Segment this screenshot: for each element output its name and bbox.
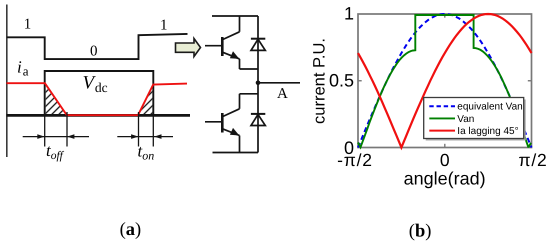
svg-text:Ia lagging 45°: Ia lagging 45°	[457, 126, 518, 137]
axis (vertical)	[6, 5, 8, 158]
svg-text:Van: Van	[457, 114, 474, 125]
svg-text:0: 0	[440, 150, 450, 170]
wire dc-link vertical	[257, 16, 259, 153]
hatch right (ton region)	[139, 86, 153, 114]
svg-text:0: 0	[90, 44, 98, 60]
diode D2 (lower freewheeling)	[251, 114, 265, 126]
svg-text:(b): (b)	[409, 222, 432, 242]
legend sample Van	[429, 117, 455, 119]
svg-text:0.5: 0.5	[329, 71, 354, 91]
svg-text:π/2: π/2	[518, 150, 547, 170]
dimension arrows toff	[23, 136, 89, 138]
curve Van (green)	[358, 15, 531, 148]
diode D1 (upper freewheeling)	[251, 39, 265, 51]
legend sample Ia lagging 45	[429, 130, 455, 132]
svg-text:angle(rad): angle(rad)	[404, 168, 486, 188]
curve equivalent Van (blue dashed)	[358, 14, 532, 148]
node A junction dot	[256, 81, 261, 86]
svg-text:1: 1	[24, 17, 32, 33]
wire bottom rail	[213, 152, 259, 154]
curve Ia lagging 45 (red)	[358, 14, 532, 148]
wire gate signal	[7, 34, 188, 59]
legend box	[424, 98, 526, 141]
wire top rail	[212, 15, 258, 17]
svg-text:equivalent Van: equivalent Van	[457, 102, 522, 113]
transistor Q1 (upper IGBT)	[205, 16, 258, 69]
transistor Q2 (lower IGBT)	[205, 94, 258, 153]
svg-text:-π/2: -π/2	[337, 150, 373, 170]
svg-text:current P.U.: current P.U.	[311, 38, 329, 124]
svg-text:1: 1	[344, 4, 354, 24]
svg-text:A: A	[277, 86, 288, 102]
svg-text:(a): (a)	[120, 220, 142, 240]
wire bottom rail	[7, 114, 191, 117]
wire output phase A	[258, 82, 300, 84]
dimension guide lines	[44, 116, 46, 147]
plot frame	[358, 14, 532, 148]
wire ia current (red)	[7, 83, 188, 115]
dimension arrows ton	[117, 136, 173, 138]
wire Vdc pulse box	[45, 71, 154, 115]
axis ticks	[444, 144, 446, 148]
svg-text:1: 1	[160, 18, 168, 34]
legend sample equivalent Van	[429, 105, 455, 107]
block arrow	[176, 39, 201, 57]
hatch left (toff region)	[46, 85, 66, 115]
